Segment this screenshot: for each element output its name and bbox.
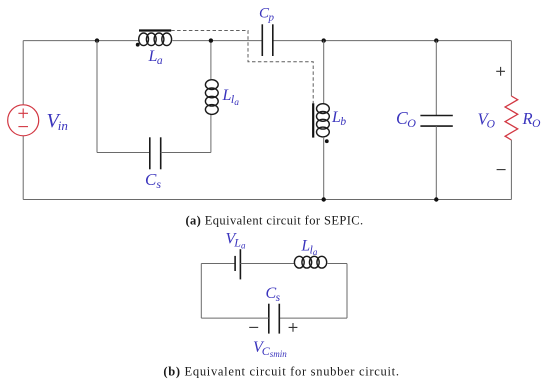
- node B junction dot: [322, 38, 326, 42]
- wire b top middle: [240, 263, 294, 265]
- wire bottom rail: [23, 199, 511, 201]
- svg-text:(b) Equivalent circuit for snu: (b) Equivalent circuit for snubber circu…: [163, 365, 399, 379]
- dashed core link La to Lb: [171, 31, 313, 104]
- wire snubber loop left vertical: [96, 41, 98, 153]
- svg-text:Lla: Lla: [301, 238, 318, 258]
- inductor Lla b (horizontal coil): [294, 256, 326, 268]
- polarity dot Lb: [325, 139, 329, 143]
- svg-text:(a) Equivalent circuit for SEP: (a) Equivalent circuit for SEPIC.: [185, 214, 363, 228]
- wire Lb branch lower: [323, 137, 325, 200]
- capacitor Cs b: [269, 304, 280, 334]
- svg-text:Lb: Lb: [331, 109, 346, 128]
- svg-text:Cs: Cs: [266, 285, 281, 304]
- node C junction dot: [434, 38, 438, 42]
- wire b left vertical: [200, 264, 202, 319]
- wire Co branch upper: [435, 41, 437, 116]
- wire b right vertical: [346, 264, 348, 319]
- wire top rail middle segment (La to Cp): [172, 40, 262, 42]
- wire snubber loop right vertical lower: [210, 115, 212, 153]
- node Lb bottom junction dot: [322, 197, 326, 201]
- wire top rail left segment: [23, 40, 139, 42]
- capacitor Cp: [262, 24, 273, 56]
- node A junction dot: [95, 38, 99, 42]
- svg-text:VO: VO: [478, 110, 496, 131]
- inductor La (horizontal coil): [139, 33, 172, 46]
- plus sign Cs b: [289, 323, 298, 332]
- polarity dot La: [136, 43, 140, 47]
- svg-text:Lla: Lla: [222, 87, 240, 108]
- voltage source Vin: [8, 105, 39, 136]
- inductor Lla (vertical coil): [205, 80, 218, 115]
- wire Lb branch upper: [323, 41, 325, 104]
- inductor Lb (vertical coil): [317, 104, 330, 137]
- svg-text:RO: RO: [522, 109, 542, 130]
- capacitor Cs: [150, 137, 161, 169]
- wire b bottom left: [201, 317, 268, 319]
- battery VLa: [235, 249, 240, 279]
- node Co bottom junction dot: [434, 197, 438, 201]
- capacitor Co: [420, 116, 452, 127]
- minus sign output: [497, 169, 506, 171]
- svg-text:VLa: VLa: [226, 231, 246, 251]
- minus sign Cs b: [249, 326, 258, 328]
- wire top rail right segment (Cp to right corner): [273, 40, 512, 42]
- resistor Ro (red zigzag): [505, 96, 518, 140]
- inductor La core bar: [139, 29, 171, 31]
- wire Co branch lower: [435, 126, 437, 199]
- svg-text:Cs: Cs: [145, 170, 161, 191]
- wire right branch top (to Ro): [510, 41, 512, 96]
- svg-text:Vin: Vin: [47, 110, 68, 133]
- wire snubber loop bottom left: [97, 152, 150, 154]
- wire b bottom right: [279, 317, 347, 319]
- wire left branch (Vin) top: [22, 41, 24, 105]
- inductor Lb core bar: [312, 103, 314, 137]
- wire left branch (Vin) bottom: [22, 136, 24, 200]
- wire b top left: [201, 263, 235, 265]
- wire snubber loop right vertical upper: [210, 41, 212, 80]
- svg-text:CO: CO: [396, 108, 416, 130]
- svg-text:La: La: [148, 48, 163, 67]
- node Lla junction dot: [209, 38, 213, 42]
- wire right branch bottom (from Ro): [510, 140, 512, 200]
- svg-text:VCsmin: VCsmin: [253, 339, 287, 359]
- wire snubber loop bottom right: [161, 152, 211, 154]
- plus sign output: [496, 67, 505, 76]
- wire b top right: [328, 263, 348, 265]
- svg-text:Cp: Cp: [259, 6, 275, 24]
